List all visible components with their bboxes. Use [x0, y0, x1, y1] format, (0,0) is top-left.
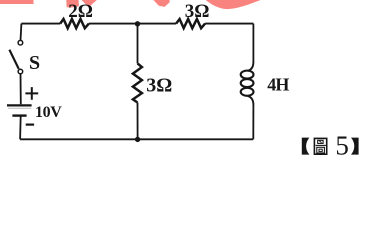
figure caption left lenticular bracket	[302, 138, 310, 155]
red mark V-shape behind 2-ohm label (right)	[82, 0, 97, 7]
battery faint second line	[8, 107, 31, 109]
resistor R 3-ohm (top) zigzag	[176, 19, 205, 28]
battery long plate	[7, 104, 32, 106]
battery short plate	[12, 114, 26, 116]
switch S top terminal	[18, 40, 23, 45]
wire: middle branch top lead	[137, 24, 139, 64]
figure caption right lenticular bracket	[351, 138, 359, 155]
figure caption character TU (figure)	[314, 138, 326, 154]
node junction dot bottom	[135, 137, 140, 142]
inductor L 4H bottom hook	[248, 96, 254, 105]
switch S blade	[9, 50, 18, 69]
battery minus sign	[26, 123, 34, 125]
battery plus sign	[25, 87, 38, 100]
red mark diagonal blob above top wire	[153, 0, 169, 7]
inductor L 4H loop 3	[241, 88, 254, 96]
svg-text:2Ω: 2Ω	[68, 1, 93, 22]
switch S bottom terminal	[18, 69, 23, 74]
red mark patch behind 2-ohm label (left)	[66, 0, 79, 7]
wire: bottom rail	[20, 138, 253, 140]
wire: 2-ohm to top junction to 3-ohm lead	[89, 23, 176, 25]
inductor L 4H top hook	[248, 61, 254, 71]
red swoosh stroke top-centre-right	[206, 0, 261, 9]
wire: 3-ohm to top-right corner	[205, 23, 253, 25]
svg-text:5: 5	[335, 131, 349, 161]
wire: top-left corner down to switch	[20, 24, 23, 41]
wire: top-right corner down to inductor	[252, 24, 254, 61]
svg-text:S: S	[29, 52, 40, 74]
resistor R 2-ohm zigzag	[60, 19, 89, 28]
wire: inductor to bottom-right corner	[252, 106, 254, 140]
svg-text:3Ω: 3Ω	[146, 74, 172, 96]
svg-text:3Ω: 3Ω	[185, 1, 210, 22]
svg-text:4H: 4H	[267, 75, 289, 95]
red watermark bar top-left	[0, 0, 34, 4]
node junction dot top	[135, 21, 140, 26]
svg-text:10V: 10V	[35, 104, 62, 121]
wire: middle branch bottom lead	[137, 103, 139, 140]
wire: top-left corner to 2-ohm resistor lead	[21, 23, 60, 25]
wire: battery to bottom-left corner	[19, 116, 22, 140]
wire: switch to battery	[20, 74, 22, 104]
inductor L 4H loop 2	[241, 79, 254, 87]
resistor R 3-ohm (middle) vertical zigzag	[133, 63, 142, 102]
inductor L 4H loop 1	[241, 71, 254, 79]
